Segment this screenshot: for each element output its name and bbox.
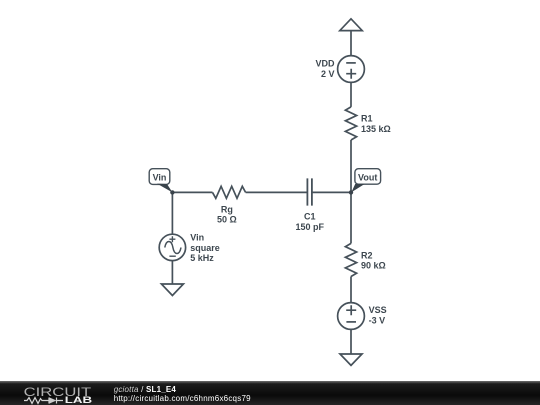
node Vin text: [153, 172, 167, 182]
wire Vin node to horizontal run: [172, 191, 212, 193]
wire VSS to ground: [350, 329, 352, 354]
footer logo CIRCUIT: [24, 385, 93, 399]
label C1 value: [296, 222, 325, 232]
node Vout text: [358, 172, 377, 182]
node Vout wedge pointer: [351, 184, 364, 192]
footer logo LAB: [65, 395, 92, 405]
svg-text:R1: R1: [361, 114, 373, 124]
svg-text:R2: R2: [361, 250, 373, 260]
ground under VSS: [340, 354, 362, 365]
power flag VDD arrow: [340, 19, 362, 31]
label R1 value: [361, 124, 391, 134]
V1 plus sign: [169, 236, 175, 242]
svg-text:-3 V: -3 V: [369, 316, 386, 326]
wire flag to VDD source: [350, 31, 352, 56]
wire Rg to C1: [246, 191, 308, 193]
ground under V1: [161, 284, 183, 296]
svg-text:90 kΩ: 90 kΩ: [361, 261, 386, 271]
voltage source VDD circle: [338, 56, 365, 83]
svg-text:150 pF: 150 pF: [296, 222, 325, 232]
svg-text:http://circuitlab.com/c6hnm6x6: http://circuitlab.com/c6hnm6x6cqs79: [114, 394, 251, 403]
svg-text:2 V: 2 V: [321, 69, 335, 79]
VDD minus sign: [346, 62, 356, 64]
svg-text:VDD: VDD: [315, 59, 335, 69]
resistor R2 zigzag: [345, 243, 356, 276]
svg-text:VSS: VSS: [369, 305, 387, 315]
svg-text:Vout: Vout: [358, 172, 377, 182]
svg-text:Vin: Vin: [153, 172, 167, 182]
V1 minus sign: [169, 255, 175, 257]
junction dot at Vout node: [349, 190, 353, 194]
label V1 name: [190, 232, 204, 242]
wire V1 to ground: [171, 261, 173, 284]
wire C1 to Vout node: [312, 191, 351, 193]
footer url line: [114, 394, 251, 403]
resistor Rg zigzag: [213, 186, 246, 198]
svg-text:135 kΩ: 135 kΩ: [361, 124, 391, 134]
wire VDD to R1: [350, 82, 352, 107]
V1 sine wave: [165, 242, 181, 254]
node Vin wedge pointer: [157, 184, 172, 193]
voltage source V1 circle: [159, 234, 185, 260]
VSS minus sign: [346, 321, 356, 323]
label VDD value: [321, 69, 335, 79]
svg-text:LAB: LAB: [65, 395, 92, 405]
label R2 value: [361, 261, 386, 271]
label Rg value: [217, 215, 237, 225]
svg-text:square: square: [190, 243, 220, 253]
footer author line: [114, 385, 177, 394]
VSS plus sign: [346, 305, 356, 315]
label R2 name: [361, 250, 373, 260]
wire Vin node down to source: [171, 192, 173, 234]
label VSS name: [369, 305, 387, 315]
footer bar: [0, 381, 540, 405]
svg-text:Vin: Vin: [190, 232, 204, 242]
node flag Vout box: [355, 169, 381, 185]
voltage source VSS circle: [338, 303, 365, 330]
node flag Vin box: [149, 169, 170, 185]
svg-text:Rg: Rg: [221, 204, 233, 214]
label R1 name: [361, 114, 373, 124]
label V1 type: [190, 243, 220, 253]
wire R1 to Vout node: [350, 140, 352, 192]
svg-text:C1: C1: [304, 212, 316, 222]
label VDD name: [315, 59, 335, 69]
label V1 frequency: [190, 253, 214, 263]
label C1 name: [304, 212, 316, 222]
resistor R1 zigzag: [345, 107, 356, 140]
svg-text:gciotta / SL1_E4: gciotta / SL1_E4: [114, 385, 177, 394]
svg-text:5 kHz: 5 kHz: [190, 253, 214, 263]
label Rg name: [221, 204, 233, 214]
capacitor C1 plates: [307, 178, 312, 205]
wire R2 to VSS: [350, 277, 352, 303]
junction dot at Vin node: [170, 190, 174, 194]
footer logo squiggle and diode: [24, 398, 63, 404]
wire Vout node to R2: [350, 192, 352, 243]
label VSS value: [369, 316, 386, 326]
svg-text:50 Ω: 50 Ω: [217, 215, 237, 225]
VDD plus sign: [346, 69, 356, 79]
